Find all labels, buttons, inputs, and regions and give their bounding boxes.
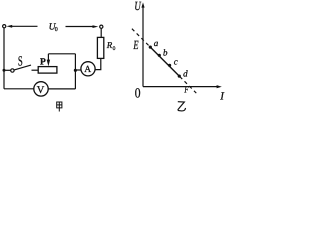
switch S contact <box>11 69 14 72</box>
wire switch to rheostat <box>32 69 39 71</box>
junction node slider/ammeter <box>74 69 77 72</box>
svg-text:U: U <box>134 0 141 13</box>
wire switch stub <box>6 69 11 71</box>
data point a <box>149 46 152 49</box>
voltmeter V circle <box>34 82 48 96</box>
switch S blade <box>14 65 31 70</box>
wire bottom left <box>4 88 34 90</box>
rheostat slider arrowhead <box>47 60 50 67</box>
svg-text:F: F <box>184 86 189 96</box>
svg-text:E: E <box>133 38 139 52</box>
axis U arrowhead <box>141 2 144 7</box>
wire voltmeter riser <box>74 70 76 89</box>
terminal right <box>100 25 103 28</box>
data point d <box>178 75 181 78</box>
U0 arrowhead left <box>6 25 12 28</box>
wire bottom right <box>48 88 75 90</box>
wire U0 arrow left <box>10 25 38 27</box>
wire terminal to R0 <box>100 28 102 37</box>
svg-text:c: c <box>174 57 178 67</box>
data point c <box>168 64 171 67</box>
terminal left <box>3 25 6 28</box>
fit line a-d <box>150 47 179 76</box>
rheostat body <box>38 67 57 74</box>
svg-text:0: 0 <box>55 27 58 33</box>
dashed extrapolation upper through E <box>132 29 150 47</box>
svg-text:0: 0 <box>135 86 141 101</box>
wire node to ammeter <box>77 69 81 71</box>
svg-text:V: V <box>37 85 45 96</box>
wire U0 arrow right <box>66 26 95 28</box>
label yi (乙) <box>178 102 186 111</box>
svg-text:a: a <box>154 38 159 48</box>
svg-text:0: 0 <box>113 46 116 52</box>
wire ammeter to R0 riser <box>95 58 101 69</box>
wire left vertical <box>3 28 5 89</box>
ammeter A circle <box>81 62 95 76</box>
svg-text:P: P <box>40 58 46 68</box>
svg-text:I: I <box>219 91 225 103</box>
U0 arrowhead right <box>93 25 99 28</box>
wire slider horizontal <box>48 53 75 55</box>
wire slider down to node <box>74 54 76 71</box>
label jia (甲) <box>57 102 62 112</box>
svg-text:b: b <box>163 48 168 58</box>
axis I <box>143 86 218 88</box>
svg-text:d: d <box>183 68 188 78</box>
axis I arrowhead <box>217 85 222 88</box>
dashed extrapolation lower through F <box>180 77 196 93</box>
svg-text:S: S <box>18 55 23 70</box>
junction node left <box>3 69 6 72</box>
rheostat slider stem <box>47 54 49 61</box>
svg-text:A: A <box>84 65 91 75</box>
resistor R0 body <box>97 37 103 58</box>
data point b <box>158 54 161 57</box>
axis U <box>142 6 144 87</box>
